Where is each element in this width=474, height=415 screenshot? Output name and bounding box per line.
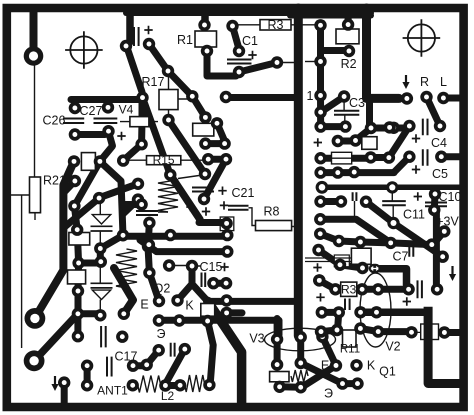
pad R2 top bbox=[342, 18, 354, 30]
svg-text:E: E bbox=[321, 359, 329, 373]
wire C5 to frame bbox=[441, 153, 460, 160]
pad bbox=[94, 155, 106, 167]
wire bbox=[122, 201, 142, 208]
vertical bus wire bbox=[294, 8, 303, 336]
pad in square bbox=[220, 217, 232, 229]
svg-text:R21: R21 bbox=[43, 174, 66, 188]
wire inner chevron bbox=[208, 321, 214, 380]
pad bbox=[273, 381, 285, 393]
component box bbox=[69, 233, 90, 246]
pad bbox=[127, 360, 139, 372]
wire bbox=[63, 181, 75, 193]
wire diag C1 bbox=[233, 26, 240, 49]
wire bbox=[362, 286, 378, 293]
pad bbox=[159, 379, 171, 391]
pad bbox=[69, 128, 81, 140]
pad bbox=[153, 344, 165, 356]
pad bbox=[173, 314, 185, 326]
wire bbox=[321, 25, 350, 61]
pad bbox=[171, 294, 183, 306]
plus mark bbox=[218, 187, 226, 195]
wire thin via to R21 bbox=[34, 65, 36, 177]
svg-text:K: K bbox=[367, 358, 376, 372]
pad bbox=[429, 188, 441, 200]
pad bbox=[316, 306, 328, 318]
pad bbox=[162, 114, 174, 126]
pad bbox=[388, 122, 400, 134]
wire diag bbox=[394, 157, 409, 173]
pad bbox=[401, 92, 413, 104]
plus mark bbox=[314, 138, 322, 146]
pad bbox=[314, 19, 326, 31]
wire thin R17 leads bbox=[169, 74, 189, 116]
svg-text:V3: V3 bbox=[249, 332, 264, 346]
capacitor C26 plates bbox=[63, 119, 84, 124]
wire S-bend bbox=[100, 132, 113, 162]
svg-text:+3V: +3V bbox=[436, 215, 459, 229]
wire diag bbox=[356, 128, 372, 141]
pad bbox=[203, 379, 215, 391]
pad bbox=[332, 166, 344, 178]
resistor R3 box bbox=[260, 20, 291, 30]
wire bbox=[78, 310, 100, 317]
wire bbox=[317, 96, 324, 113]
pad bbox=[95, 256, 107, 268]
wire top border down bbox=[126, 8, 134, 42]
pad bbox=[312, 244, 324, 256]
pad C1 plus bbox=[233, 45, 245, 57]
pad bbox=[153, 295, 165, 307]
wire column bbox=[74, 206, 78, 314]
wire pad to frame bbox=[61, 383, 68, 403]
pad bbox=[386, 181, 398, 193]
zigzag resistor bbox=[116, 249, 137, 288]
wire diag bbox=[63, 198, 99, 228]
pad bbox=[221, 245, 233, 257]
pad bbox=[295, 331, 307, 343]
wire bbox=[321, 198, 342, 205]
pad bbox=[72, 330, 84, 342]
pad bbox=[143, 267, 155, 279]
pad bbox=[220, 277, 232, 289]
wire diag bbox=[123, 144, 141, 160]
wire bbox=[444, 329, 461, 336]
top ground bus thickening bbox=[126, 10, 371, 16]
wire R1 to junction bbox=[207, 53, 236, 76]
pad bbox=[58, 376, 70, 388]
capacitor plates bbox=[136, 211, 158, 215]
pad bbox=[331, 324, 343, 336]
wire bbox=[317, 112, 324, 126]
svg-text:C3: C3 bbox=[349, 96, 365, 110]
pad bbox=[81, 360, 93, 372]
wire bbox=[74, 314, 81, 336]
pad bbox=[179, 343, 191, 355]
pad bbox=[420, 91, 432, 103]
svg-text:Q1: Q1 bbox=[379, 365, 396, 379]
wire thin left net bbox=[8, 195, 29, 348]
wire to bus bbox=[226, 94, 298, 101]
svg-text:C26: C26 bbox=[43, 114, 66, 128]
svg-text:Q2: Q2 bbox=[154, 282, 171, 296]
capacitor C15 plates bbox=[202, 273, 206, 288]
pad bbox=[199, 111, 211, 123]
pad R1 bottom bbox=[201, 45, 213, 57]
wire bbox=[338, 312, 339, 330]
plus mark C1 bbox=[248, 51, 256, 59]
pad bbox=[332, 135, 344, 147]
capacitor C4 plates bbox=[423, 119, 428, 136]
pad bbox=[314, 106, 326, 118]
component box bbox=[270, 372, 289, 382]
pad bbox=[102, 101, 114, 113]
wire band bbox=[114, 268, 133, 314]
pad bbox=[333, 235, 345, 247]
plus mark bbox=[186, 203, 194, 211]
pad bbox=[385, 237, 397, 249]
wire diag bbox=[320, 234, 339, 241]
wire bbox=[322, 337, 336, 366]
plus mark bbox=[313, 263, 321, 271]
pad bbox=[338, 90, 350, 102]
pad bbox=[356, 283, 368, 295]
pad bbox=[220, 153, 232, 165]
wire row bbox=[321, 169, 394, 176]
pad bbox=[143, 239, 155, 251]
wire bbox=[97, 249, 104, 262]
svg-text:C15: C15 bbox=[200, 260, 223, 274]
pad bbox=[333, 306, 345, 318]
pad C1 top bbox=[226, 20, 238, 32]
plus mark C4 bbox=[412, 134, 420, 142]
wire bbox=[165, 349, 184, 384]
wire row y311 left bbox=[322, 309, 339, 316]
svg-text:R11: R11 bbox=[340, 344, 360, 356]
wire diag bbox=[169, 120, 206, 174]
wire R2 to border bbox=[345, 8, 352, 25]
plus mark bbox=[220, 263, 228, 271]
pad bbox=[387, 217, 399, 229]
pad bbox=[199, 137, 211, 149]
wire bbox=[75, 131, 105, 138]
resistor R8 box bbox=[256, 221, 292, 231]
wire border to R1 bbox=[201, 8, 209, 22]
plus mark bbox=[220, 201, 228, 209]
pad bbox=[201, 315, 213, 327]
wire thin bbox=[305, 61, 315, 63]
pad bbox=[334, 259, 346, 271]
wire thin bbox=[158, 176, 199, 213]
mounting hole top-right bbox=[408, 24, 435, 51]
pad bbox=[438, 326, 450, 338]
resistor R3 box bbox=[341, 282, 357, 296]
zigzag resistor bbox=[158, 178, 178, 212]
wire bbox=[280, 383, 301, 391]
wire top border to big via bbox=[30, 8, 38, 47]
svg-text:C27: C27 bbox=[80, 104, 103, 118]
pad bbox=[314, 152, 326, 164]
capacitor plates bbox=[192, 188, 214, 192]
pad bbox=[354, 322, 366, 334]
capacitor C5 plates bbox=[423, 149, 428, 166]
svg-text:ANT1: ANT1 bbox=[97, 384, 128, 398]
pad bbox=[116, 331, 128, 343]
wire bbox=[205, 140, 224, 147]
varicap diode bbox=[91, 283, 113, 288]
svg-text:E: E bbox=[140, 298, 148, 312]
jumper link pill bbox=[369, 264, 381, 274]
varicap diode bbox=[92, 215, 110, 224]
zigzag resistor bbox=[291, 370, 308, 382]
pad bbox=[72, 257, 84, 269]
coil L2 zigzag bbox=[138, 376, 161, 393]
wire long row bbox=[322, 185, 463, 191]
pad bbox=[348, 166, 360, 178]
wire bbox=[321, 123, 346, 130]
pad bbox=[199, 168, 211, 180]
pad bbox=[339, 120, 351, 132]
transistor V3 outline bbox=[265, 328, 336, 351]
component box bbox=[362, 137, 377, 150]
svg-text:K: K bbox=[185, 299, 194, 313]
wire bend to +3V row bbox=[380, 269, 407, 285]
svg-text:R1: R1 bbox=[177, 33, 193, 47]
pad bbox=[198, 193, 210, 205]
pad bbox=[403, 120, 415, 132]
component box bbox=[351, 248, 371, 264]
pad bbox=[316, 331, 328, 343]
pad bbox=[403, 151, 415, 163]
wire bbox=[317, 62, 324, 96]
component box bbox=[68, 270, 86, 284]
wire bbox=[147, 350, 159, 365]
pad bbox=[68, 155, 80, 167]
wire L rail to frame bbox=[428, 307, 460, 384]
pad bbox=[313, 274, 325, 286]
resistor R1 box bbox=[195, 31, 217, 47]
capacitor C28 plates bbox=[134, 27, 139, 46]
wire row bbox=[124, 233, 227, 240]
wire stub bbox=[227, 309, 242, 316]
plus mark bbox=[144, 26, 152, 34]
top ground bus thickening 2 bbox=[290, 13, 371, 19]
wire bbox=[436, 231, 444, 240]
pad bbox=[94, 309, 106, 321]
big via pad bbox=[25, 308, 46, 329]
pad bbox=[127, 379, 139, 391]
pad bbox=[383, 151, 395, 163]
capacitor plates bbox=[171, 343, 175, 357]
plus mark bbox=[316, 293, 324, 301]
svg-text:R3: R3 bbox=[268, 18, 284, 32]
pad bbox=[437, 92, 449, 104]
wire big chevron to frame bbox=[208, 301, 242, 406]
wire bbox=[213, 280, 226, 287]
wire thin C15 lead bbox=[169, 265, 201, 268]
wire diag R pad bbox=[427, 97, 441, 126]
capacitor C7 plates bbox=[409, 242, 413, 257]
svg-text:C11: C11 bbox=[403, 208, 425, 222]
pad bbox=[435, 151, 447, 163]
svg-text:R8: R8 bbox=[264, 205, 280, 219]
wire bbox=[297, 337, 304, 363]
plus mark bbox=[403, 297, 411, 305]
pad bbox=[220, 91, 232, 103]
wire bbox=[371, 154, 389, 161]
pad bbox=[202, 153, 214, 165]
component box thin bbox=[334, 255, 349, 267]
wire bundle diag 2 bbox=[35, 161, 74, 318]
svg-text:C10: C10 bbox=[439, 190, 462, 204]
pad bbox=[118, 308, 130, 320]
pad bbox=[271, 56, 283, 68]
pad bbox=[351, 377, 363, 389]
svg-text:C7: C7 bbox=[393, 250, 409, 264]
wire diag bbox=[302, 366, 336, 388]
pad bbox=[117, 229, 129, 241]
transistor K box bbox=[201, 304, 215, 317]
wire diag bbox=[192, 96, 205, 117]
wire thin box leads bbox=[414, 331, 443, 333]
pad bbox=[132, 193, 144, 205]
wire bbox=[343, 380, 358, 387]
wire diag bbox=[389, 126, 410, 158]
capacitor C10 plates bbox=[425, 203, 447, 207]
pad bbox=[313, 274, 325, 286]
pad bbox=[335, 195, 347, 207]
pad bbox=[94, 242, 106, 254]
pad bbox=[207, 277, 219, 289]
wire diag long bbox=[143, 98, 171, 175]
pad bbox=[120, 40, 132, 52]
pad bbox=[314, 213, 326, 225]
capacitor C27 plates bbox=[94, 119, 118, 124]
pad R1 top bbox=[198, 19, 210, 31]
pad bbox=[356, 262, 368, 274]
resistor R17 box bbox=[159, 90, 178, 110]
wire thin R15 leads bbox=[127, 159, 203, 161]
pad bbox=[153, 314, 165, 326]
wire thin R3 leads bbox=[237, 24, 316, 26]
pad bbox=[211, 117, 223, 129]
wire bbox=[79, 260, 101, 267]
wire diag bbox=[217, 123, 225, 141]
big via pad bbox=[24, 46, 44, 66]
wire row y319 bbox=[159, 320, 279, 335]
wire vertical +3V rail bbox=[433, 212, 440, 289]
wire thin bbox=[276, 365, 278, 372]
wire diag bbox=[149, 44, 168, 71]
pad bbox=[434, 120, 446, 132]
wire diag bbox=[366, 202, 394, 223]
pad bbox=[69, 175, 81, 187]
wire row bbox=[321, 155, 371, 162]
pad node 1 bbox=[314, 89, 326, 101]
svg-text:L2: L2 bbox=[161, 389, 175, 403]
wire diag bbox=[168, 71, 192, 96]
svg-text:R: R bbox=[420, 75, 429, 89]
svg-text:V4: V4 bbox=[119, 103, 134, 117]
wire thin R8 leads bbox=[249, 208, 299, 227]
pad bbox=[428, 204, 440, 216]
pad bbox=[438, 225, 450, 237]
wire thin C3 leads bbox=[343, 97, 346, 127]
pad bbox=[372, 325, 384, 337]
wire thin cap leads bbox=[391, 193, 394, 217]
component box bbox=[421, 324, 439, 340]
svg-text:Э: Э bbox=[157, 327, 166, 341]
pad bbox=[315, 325, 327, 337]
wire transistor Q2 legs bbox=[178, 266, 208, 301]
pad bbox=[314, 120, 326, 132]
svg-text:V2: V2 bbox=[385, 340, 400, 354]
wire bbox=[338, 138, 356, 145]
pad bbox=[329, 283, 341, 295]
pad bbox=[72, 285, 84, 297]
capacitor C17 plates bbox=[107, 357, 112, 377]
svg-text:R17: R17 bbox=[142, 75, 165, 89]
wire diag to column bbox=[100, 161, 123, 235]
wire bbox=[133, 362, 147, 369]
wire arm bbox=[123, 200, 138, 214]
pad bbox=[162, 65, 174, 77]
pad bbox=[314, 166, 326, 178]
plus mark bbox=[117, 132, 125, 140]
wire bbox=[165, 382, 180, 389]
pad bbox=[220, 294, 232, 306]
pad bbox=[141, 359, 153, 371]
arrow down bbox=[54, 376, 56, 386]
resistor R11 box bbox=[343, 330, 357, 347]
pad bbox=[354, 236, 366, 248]
wire diag bbox=[319, 280, 335, 289]
pad bbox=[221, 229, 233, 241]
wire thin to bus bbox=[277, 62, 298, 64]
pad bbox=[164, 169, 176, 181]
arrow down bbox=[405, 75, 407, 84]
wire top rail bbox=[71, 96, 139, 103]
resistor R15 box bbox=[147, 156, 181, 165]
pad bbox=[72, 308, 84, 320]
svg-text:C21: C21 bbox=[232, 186, 255, 200]
capacitor plates bbox=[101, 326, 106, 347]
wire bbox=[378, 286, 408, 293]
wire row y242 bbox=[339, 241, 432, 245]
wire bbox=[340, 265, 363, 268]
wire thin cap lead bbox=[354, 201, 356, 217]
pad bbox=[174, 379, 186, 391]
wire row y301 bbox=[208, 298, 299, 305]
pad bbox=[135, 198, 147, 210]
pad bbox=[68, 200, 80, 212]
square pad marker bbox=[220, 217, 234, 231]
capacitor plates bbox=[382, 201, 406, 205]
pad bbox=[405, 326, 417, 338]
pad bbox=[142, 240, 154, 252]
svg-text:Э: Э bbox=[324, 387, 333, 401]
transistor V2 outline bbox=[360, 273, 391, 347]
wire bundle diag bbox=[74, 161, 100, 206]
plus mark bbox=[202, 207, 210, 215]
component box bbox=[81, 153, 95, 171]
pad bbox=[102, 125, 114, 137]
wire diag bbox=[301, 363, 343, 384]
wire bbox=[204, 301, 211, 319]
plus mark C5 bbox=[412, 165, 420, 173]
wire thin varicap leads bbox=[99, 262, 101, 316]
pad bbox=[426, 238, 438, 250]
pad bbox=[314, 55, 326, 67]
